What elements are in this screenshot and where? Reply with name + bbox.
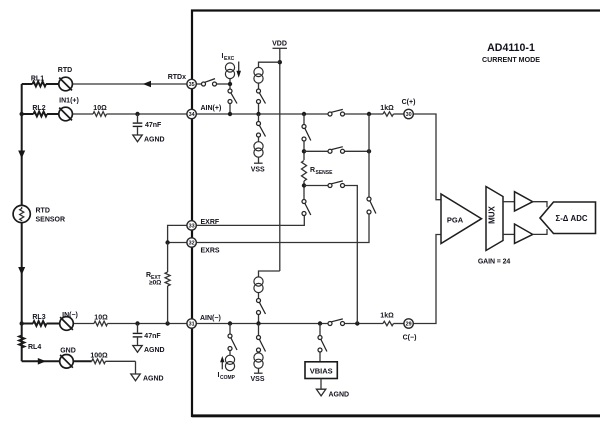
svg-text:AIN(+): AIN(+) xyxy=(201,105,222,112)
svg-text:35: 35 xyxy=(189,82,195,88)
terminal IN1(+) xyxy=(59,98,79,121)
junction RSENSE top xyxy=(302,149,306,153)
wire AIN- row inside chip xyxy=(196,323,383,325)
arrow ICOMP up xyxy=(220,356,224,369)
svg-text:10Ω: 10Ω xyxy=(93,105,107,112)
resistor 1kohm (C+) xyxy=(380,105,394,116)
RTD sensor xyxy=(13,205,65,223)
wire pin30 to PGA top input xyxy=(413,114,441,200)
svg-text:SENSE: SENSE xyxy=(316,170,334,176)
row RSENSE bottom link xyxy=(304,186,357,324)
pin 35 RTDx xyxy=(168,74,197,89)
svg-text:VBIAS: VBIAS xyxy=(310,367,333,376)
resistor RL1 xyxy=(31,76,46,87)
switch S2 (AIN- row to 1k) xyxy=(328,319,345,326)
svg-text:≥0Ω: ≥0Ω xyxy=(149,280,161,287)
svg-text:VSS: VSS xyxy=(251,166,265,173)
svg-text:10Ω: 10Ω xyxy=(94,315,108,322)
VSS rail (top) xyxy=(251,163,265,173)
svg-text:30: 30 xyxy=(406,112,412,118)
svg-text:RL1: RL1 xyxy=(31,76,44,83)
svg-text:AGND: AGND xyxy=(329,391,350,398)
switch S15 (AIN- to VBIAS) xyxy=(318,324,327,362)
svg-text:33: 33 xyxy=(189,223,195,229)
svg-text:EXC: EXC xyxy=(224,56,235,62)
svg-text:RTD: RTD xyxy=(36,208,50,215)
current source ICOMP xyxy=(218,355,236,381)
flow arrow right on GND wire xyxy=(38,358,46,365)
junction EXRF/EXRS tie xyxy=(165,240,169,244)
wire left bus xyxy=(21,84,23,361)
junction AIN+/RSENSE col xyxy=(302,112,306,116)
wire S5 to AIN+ row xyxy=(258,104,260,114)
junction R_EXT / AIN- row xyxy=(165,321,169,325)
svg-text:IN1(+): IN1(+) xyxy=(59,98,79,105)
wire buffer bottom to ADC xyxy=(533,229,547,234)
VDD supply xyxy=(272,41,287,272)
wire source to S5 xyxy=(258,83,260,89)
svg-text:AGND: AGND xyxy=(144,137,165,144)
switch S12 (source to AIN-) xyxy=(257,299,266,324)
buffer amp bottom xyxy=(515,224,533,243)
resistor 100ohm xyxy=(90,353,108,364)
svg-text:GND: GND xyxy=(60,348,76,355)
svg-text:AGND: AGND xyxy=(143,376,164,383)
resistor RL2 xyxy=(32,105,47,116)
VSS rail (bottom) xyxy=(250,373,264,383)
wire R_EXT to AIN- row xyxy=(167,286,169,324)
svg-text:C(−): C(−) xyxy=(403,335,417,342)
svg-text:29: 29 xyxy=(406,322,412,328)
svg-text:RTD: RTD xyxy=(58,67,72,74)
svg-text:EXRS: EXRS xyxy=(201,248,220,255)
op-amp PGA xyxy=(441,194,482,244)
svg-text:PGA: PGA xyxy=(447,216,464,225)
svg-text:CURRENT MODE: CURRENT MODE xyxy=(482,56,540,64)
junction cap 47nF (AIN-) xyxy=(135,321,139,325)
wire RTDx row xyxy=(22,83,188,85)
svg-text:47nF: 47nF xyxy=(144,333,161,340)
ground AGND (AIN- cap) xyxy=(133,346,165,355)
wire col369 upper xyxy=(368,114,370,197)
svg-text:1kΩ: 1kΩ xyxy=(380,105,394,112)
switch S4 (IEXC node to AIN+) xyxy=(228,89,237,104)
svg-text:AIN(−): AIN(−) xyxy=(200,315,221,322)
wire VDD branch to source column xyxy=(259,62,280,67)
current source VDD->AIN- xyxy=(254,277,263,298)
junction AIN-/source col xyxy=(256,321,260,325)
svg-text:GAIN = 24: GAIN = 24 xyxy=(478,259,511,266)
wire AIN+ row inside chip xyxy=(196,113,383,115)
junction AIN-/ICOMP col xyxy=(228,321,232,325)
switch S8 (RSENSE bottom to EXRF) xyxy=(302,200,311,216)
wire EXRS row xyxy=(196,214,369,242)
wire RSENSE to bottom junction xyxy=(303,181,305,199)
resistor 10ohm (AIN+) xyxy=(93,105,107,116)
junction AIN+/IEXC col xyxy=(228,112,232,116)
svg-text:RTDx: RTDx xyxy=(168,74,186,81)
svg-text:AD4110-1: AD4110-1 xyxy=(487,42,535,54)
svg-text:100Ω: 100Ω xyxy=(90,353,108,360)
resistor 1kohm (C-) xyxy=(380,313,394,326)
resistor RL4 xyxy=(19,336,41,352)
switch S14 (AIN- to VSS sink) xyxy=(257,324,266,354)
wire switch to IEXC node xyxy=(217,83,230,85)
wire VDD down-jog to AIN- source xyxy=(259,271,280,277)
junction RSENSE bottom xyxy=(302,183,306,187)
svg-text:47nF: 47nF xyxy=(145,122,162,129)
ground AGND (after 100ohm) xyxy=(131,374,164,383)
junction bus/RL2 xyxy=(20,112,24,116)
sigma-delta ADC banner xyxy=(540,202,596,234)
svg-text:EXRF: EXRF xyxy=(201,219,220,226)
terminal IN(-) xyxy=(60,312,78,330)
capacitor 47nF (AIN+) xyxy=(133,114,162,135)
flow arrow left on RTDx wire xyxy=(143,81,151,88)
junction AIN-/VBIAS col xyxy=(318,321,322,325)
switch S13 (AIN- to ICOMP) xyxy=(228,324,237,356)
junction col369/row151 xyxy=(367,149,371,153)
switch S7 (AIN+ to RSENSE top) xyxy=(302,114,311,160)
junction VDD branch xyxy=(278,60,282,64)
terminal RTD xyxy=(58,67,73,91)
svg-text:COMP: COMP xyxy=(220,375,236,381)
wire MUX to buffer bottom xyxy=(503,233,515,235)
junction bus/RL3 xyxy=(20,321,24,325)
pin 31 AIN(-) xyxy=(187,315,221,328)
switch S3 (RTDx to IEXC node) xyxy=(202,79,217,86)
switch S1 (AIN+ row to 1k) xyxy=(328,109,345,116)
resistor RL3 xyxy=(32,314,46,326)
wire EXRS left stub xyxy=(168,242,188,244)
resistor R_EXT >=0ohm xyxy=(146,272,170,287)
switch S9 (RSENSE top to C+ col) xyxy=(328,147,345,154)
AD4110-1 chip boundary xyxy=(192,11,600,417)
pin 34 AIN(+) xyxy=(187,105,221,119)
wire 1k to pin29 xyxy=(394,323,405,325)
current sink to VSS (AIN-) xyxy=(254,353,263,373)
wire pin29 to PGA bottom input xyxy=(413,235,441,324)
svg-text:VSS: VSS xyxy=(250,376,264,383)
terminal GND xyxy=(60,348,76,369)
svg-text:RL3: RL3 xyxy=(32,314,45,321)
svg-text:RL2: RL2 xyxy=(32,105,45,112)
wire RL2/AIN+ row (outside chip) xyxy=(22,113,188,115)
switch S6 (AIN+ to VSS sink) xyxy=(257,114,266,137)
svg-text:31: 31 xyxy=(189,322,195,328)
svg-text:Σ-Δ ADC: Σ-Δ ADC xyxy=(556,214,588,223)
junction IEXC node xyxy=(228,82,232,86)
switch S11 (col369 to EXRS) xyxy=(367,197,376,214)
wire IEXC to junction xyxy=(229,79,231,89)
resistor R_SENSE xyxy=(302,161,334,182)
flow arrow down (lower) xyxy=(18,267,25,275)
buffer amp top xyxy=(515,192,533,211)
svg-text:RL4: RL4 xyxy=(28,344,41,351)
current source IEXC xyxy=(222,53,235,79)
arrow IEXC down xyxy=(236,62,241,78)
ground AGND (AIN+ cap) xyxy=(133,135,165,144)
pin 30 C(+) xyxy=(402,99,416,119)
pin 32 EXRS xyxy=(187,238,220,255)
wire MUX to buffer top xyxy=(503,201,515,203)
wire EXRF row xyxy=(196,216,304,226)
wire EXRF left loop xyxy=(168,225,188,242)
junction AIN+/VDD source col xyxy=(256,112,260,116)
svg-text:SENSOR: SENSOR xyxy=(36,217,66,224)
wire pin35 to switch xyxy=(196,83,201,85)
junction cap 47nF (AIN+) xyxy=(135,112,139,116)
svg-text:34: 34 xyxy=(189,112,195,118)
ground AGND (VBIAS) xyxy=(316,379,349,399)
MUX block xyxy=(486,187,503,251)
current source VDD->AIN+ xyxy=(254,67,263,83)
resistor 10ohm (AIN-) xyxy=(94,315,108,326)
svg-text:IN(−): IN(−) xyxy=(62,312,78,319)
svg-text:MUX: MUX xyxy=(488,205,497,223)
switch S10 (RSENSE bottom to AIN- col) xyxy=(328,181,345,188)
junction AIN-/col357 xyxy=(355,321,359,325)
svg-text:1kΩ: 1kΩ xyxy=(380,313,394,320)
svg-text:C(+): C(+) xyxy=(402,99,416,106)
svg-text:32: 32 xyxy=(189,241,195,247)
current sink to VSS (AIN+) xyxy=(254,137,263,163)
svg-text:AGND: AGND xyxy=(144,347,165,354)
wire to R_EXT xyxy=(167,243,169,273)
wire buffer top to ADC xyxy=(533,202,547,208)
switch S5 xyxy=(257,89,266,104)
wire 1k to pin30 xyxy=(394,113,405,115)
svg-text:VDD: VDD xyxy=(272,41,287,48)
pin 33 EXRF xyxy=(187,219,220,230)
wire GND row xyxy=(22,361,136,374)
capacitor 47nF (AIN-) xyxy=(133,324,162,346)
wire S4 to AIN+ row xyxy=(229,104,231,114)
row RSENSE top link xyxy=(304,150,369,152)
flow arrow down (upper) xyxy=(18,151,25,159)
VBIAS block xyxy=(305,362,337,379)
svg-text:R: R xyxy=(310,167,315,174)
junction AIN+/col369 xyxy=(367,112,371,116)
pin 29 C(-) xyxy=(403,319,417,342)
wire RL3/AIN- row (outside chip) xyxy=(22,323,188,325)
